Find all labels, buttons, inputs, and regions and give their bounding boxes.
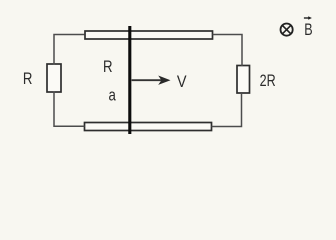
bottom rail [85, 123, 212, 131]
svg-text:R: R [103, 58, 113, 77]
wire top-right [213, 35, 243, 67]
top rail [85, 31, 213, 39]
wire bottom-right [212, 93, 242, 127]
vector arrow over B [304, 17, 310, 19]
resistor 2R (right) [237, 66, 250, 94]
svg-text:a: a [109, 86, 117, 105]
svg-text:2R: 2R [260, 72, 276, 90]
sliding bar (node a) [128, 26, 131, 134]
wire top-left [54, 35, 85, 65]
svg-text:B: B [304, 21, 312, 39]
resistor R (left) [47, 64, 61, 92]
svg-text:V: V [177, 73, 187, 91]
svg-text:R: R [23, 70, 33, 89]
velocity arrow V [132, 79, 162, 81]
wire bottom-left [54, 92, 85, 127]
field-into-page symbol [281, 24, 293, 36]
